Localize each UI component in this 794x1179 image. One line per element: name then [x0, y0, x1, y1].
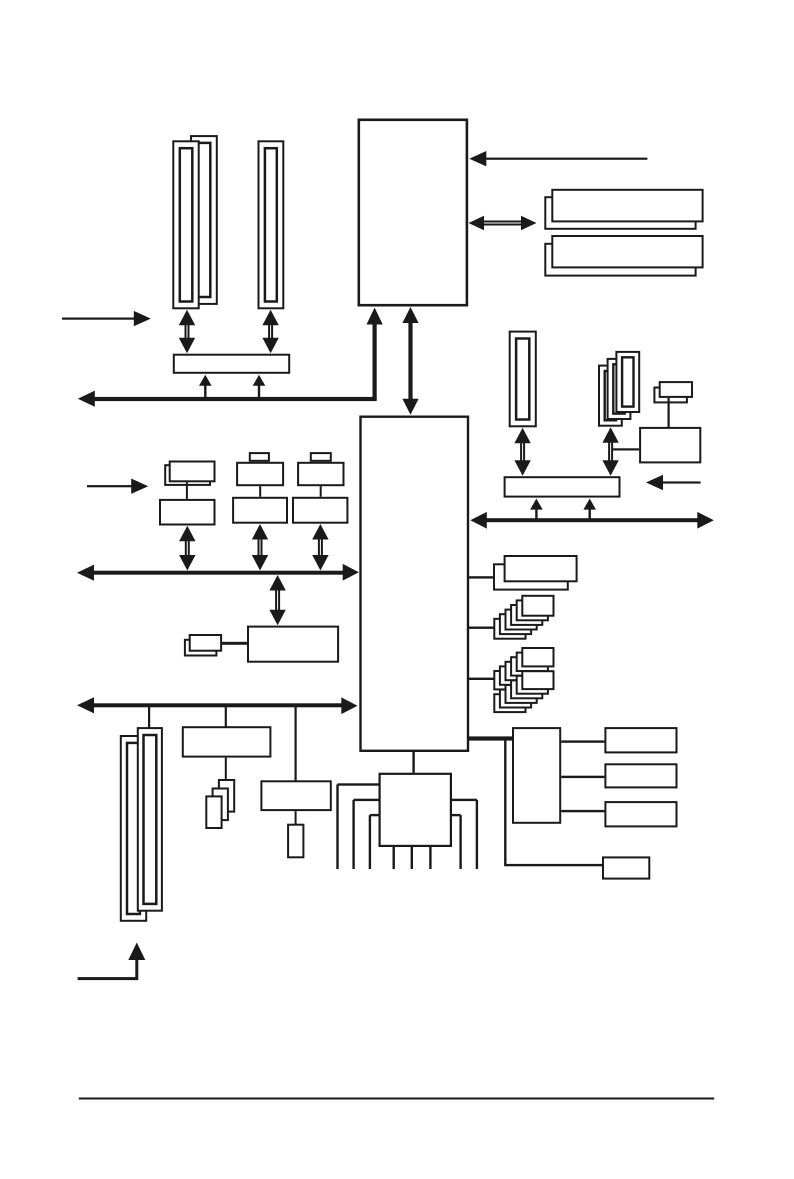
IEEE1394 block	[261, 781, 330, 810]
rear panel arrow	[78, 943, 146, 981]
wire drop to 1394	[295, 707, 297, 781]
controller B block	[233, 498, 287, 523]
wire SATA2	[561, 776, 604, 778]
LAN port connectors x3	[206, 780, 234, 828]
CPU block	[359, 120, 467, 305]
connector A (shadow)	[165, 465, 210, 485]
audio codec block	[380, 774, 451, 846]
wire: PCI bus	[77, 564, 359, 581]
controller B top block	[237, 463, 283, 485]
wire USB stub 3	[469, 678, 495, 680]
PCI slots x3 cascade	[599, 352, 639, 426]
audio jack wire B3	[429, 847, 431, 869]
Super I/O block	[248, 627, 338, 662]
SATA port 2	[605, 764, 676, 787]
PCI bridge 2 block	[505, 477, 620, 496]
DDR DIMM1	[552, 190, 702, 222]
PCIe x16 slot PCIE1	[173, 141, 198, 308]
input arrow SMBus	[87, 479, 148, 494]
controller C block	[293, 498, 347, 523]
DDR DIMM2	[552, 236, 702, 267]
wire drop to PCI slot	[148, 707, 150, 728]
wire: host bus to CPU	[78, 308, 383, 407]
chipset block U1	[361, 417, 469, 751]
bus arrow PCIE1-bridge	[179, 310, 195, 353]
wire: IDE/SATA thick link	[469, 736, 512, 740]
input arrow LPC	[62, 311, 151, 326]
connector C tab	[311, 453, 331, 461]
connector B tab	[250, 453, 269, 461]
stub arrow bridge pin 1	[199, 375, 212, 398]
SATA controller block	[513, 728, 560, 823]
audio jack wire B1	[393, 847, 395, 869]
PCI slot	[138, 728, 162, 911]
WiFi connector	[660, 382, 692, 397]
bus arrow B	[252, 524, 268, 571]
controller A block	[160, 500, 215, 525]
USB ports group 1 (shadow)	[494, 564, 568, 589]
wire 1394-port	[295, 811, 297, 824]
wire USB stub 1	[469, 576, 495, 578]
wire A	[186, 482, 188, 499]
USB ports group 2 x6	[494, 596, 553, 639]
bus arrow SuperIO	[269, 575, 285, 625]
stub arrow bridge2 pin 1	[530, 499, 543, 519]
AGP slot	[510, 332, 536, 427]
LAN PHY block	[640, 428, 700, 463]
PCIe x16 slot PCIE2	[259, 141, 284, 308]
wire SATA3	[561, 810, 604, 812]
SATA port 1	[605, 728, 676, 752]
wire LAN-ports	[225, 758, 227, 781]
stub arrow bridge2 pin 2	[583, 499, 596, 519]
bus arrow PCIE2-bridge	[262, 310, 278, 353]
audio jack wire L3	[369, 814, 379, 869]
PCI slot (rear shadow)	[121, 736, 146, 921]
audio jack wire B2	[411, 847, 413, 869]
wire C	[320, 486, 322, 497]
wire: LPC/ISA bus	[77, 697, 358, 714]
bus arrow C	[312, 524, 328, 571]
SATA port 3	[605, 802, 676, 826]
audio jack wire L2	[352, 799, 378, 869]
clock input arrow to CPU	[469, 151, 647, 166]
wire chipset-codec	[412, 752, 414, 773]
wire drop to LAN	[225, 707, 227, 727]
WiFi connector (shadow)	[654, 388, 687, 403]
wire to BIOS	[504, 739, 602, 867]
audio jack wire R2	[452, 814, 462, 869]
floppy connector	[190, 635, 221, 651]
stub arrow bridge pin 2	[253, 375, 266, 398]
wire SATA1	[561, 740, 604, 742]
wire B	[259, 486, 261, 497]
footer rule	[79, 1098, 714, 1100]
USB ports group 3 x12	[494, 648, 553, 712]
controller C top block	[298, 463, 343, 485]
wire floppy-SuperIO	[222, 642, 247, 645]
audio jack wire R1	[452, 799, 478, 869]
bus arrow AGP-bridge2	[514, 428, 530, 476]
wire antenna-LAN2	[668, 398, 670, 427]
connector A	[170, 462, 215, 482]
bus arrow PCIcasc-bridge2	[602, 427, 618, 476]
LAN controller block	[183, 727, 271, 756]
bus arrow A	[179, 526, 195, 571]
audio jack wire L1	[336, 783, 378, 869]
BIOS block	[603, 857, 649, 878]
wire: secondary PCI bus	[470, 512, 714, 529]
input arrow PCI clock	[646, 475, 701, 490]
USB ports group 1	[505, 556, 577, 581]
PCIe bridge block	[174, 355, 289, 373]
wire USB stub 2	[469, 627, 495, 629]
wire bridge2arrow-LANPHY	[612, 448, 639, 450]
DDR DIMM1 (shadow)	[545, 197, 695, 229]
memory bus arrow	[469, 216, 537, 230]
PCIe x16 slot PCIE1 (rear shadow)	[191, 136, 217, 304]
floppy connector (shadow)	[185, 640, 217, 656]
DDR DIMM2 (shadow)	[545, 244, 695, 276]
1394 port connector	[288, 825, 303, 858]
hub link arrow CPU-chipset	[402, 307, 418, 415]
